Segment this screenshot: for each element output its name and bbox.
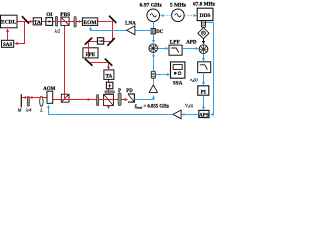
wire: blue APS left to amplifier bbox=[182, 114, 199, 116]
half-wave plate lambda/2 (top row) bbox=[54, 16, 61, 33]
SAS saturated absorption spectroscopy box bbox=[2, 40, 14, 48]
PBS2 combiner cube (bottom) bbox=[104, 94, 114, 105]
mirror M3 (turns beam down to FPE) bbox=[85, 38, 92, 45]
isolator2 box (left arrow) bbox=[97, 38, 103, 45]
wire: red beam TA2 to isolator3 to waveplate to PBS2 bbox=[108, 79, 110, 95]
beam splitter cube1 (bottom, under PBS1) bbox=[61, 94, 69, 102]
6.97 GHz oscillator bbox=[140, 2, 163, 21]
PBS1 polarizing beam splitter cube (top row) bbox=[61, 17, 69, 25]
wire: blue PD output to vertical riser bbox=[135, 96, 154, 99]
isolator3 box (down arrow) bbox=[106, 82, 113, 89]
wire: red diffracted beam AOM to PD bbox=[53, 99, 128, 101]
wire: red pickoff beam down to SAS row bbox=[15, 21, 24, 44]
svg-text:PI: PI bbox=[201, 89, 206, 95]
svg-text:PD: PD bbox=[126, 89, 133, 94]
svg-text:L: L bbox=[39, 107, 43, 112]
svg-text:TA: TA bbox=[34, 20, 41, 26]
wire: blue splitter2 down to doubler diamond bbox=[203, 26, 205, 29]
wire: dashed blue 5MHz to DDS bbox=[184, 15, 196, 17]
svg-text:OI: OI bbox=[46, 12, 52, 18]
wire: blue splitter1 up into mixer1 bbox=[153, 54, 155, 72]
LPF2 loop filter box bbox=[198, 62, 211, 73]
mixer1 bbox=[149, 44, 158, 53]
wire: blue splitter2 tap to right edge down to APS bbox=[205, 23, 213, 115]
LPF low-pass filter box bbox=[169, 40, 182, 56]
svg-text:SSA: SSA bbox=[173, 80, 183, 86]
red arrow into TA1 bbox=[30, 20, 33, 23]
wire: blue 6.97GHz osc down through DC block into mixer1 bbox=[153, 22, 155, 43]
svg-text:P: P bbox=[118, 89, 121, 94]
power splitter (PD chain) bbox=[151, 71, 155, 78]
red arrow after quarter-wave plate bbox=[31, 96, 34, 99]
optical isolator OI box bbox=[46, 12, 53, 25]
svg-text:67.8 MHz: 67.8 MHz bbox=[193, 2, 215, 8]
wire: red beam down from M1 bbox=[112, 21, 114, 42]
svg-text:λ/2: λ/2 bbox=[54, 28, 61, 33]
svg-text:TA: TA bbox=[105, 74, 112, 80]
wire: black doubler down into mixer2 bbox=[203, 39, 205, 44]
power splitter under DDS bbox=[201, 21, 205, 27]
polarizer P bbox=[118, 89, 121, 105]
mirror M1 (top right of EOM) bbox=[109, 16, 116, 23]
EOM electro-optic modulator box bbox=[82, 18, 97, 26]
red arrow into EOM bbox=[79, 20, 82, 23]
wire: blue mixer1 out to LPF bbox=[158, 48, 169, 50]
AOM acousto-optic modulator box bbox=[43, 87, 56, 103]
TA1 tapered amplifier box bbox=[33, 18, 41, 26]
svg-text:Vc(t): Vc(t) bbox=[185, 103, 194, 109]
wire: red beam PBS1 down through cube1 bbox=[64, 25, 66, 99]
LNA low-noise amplifier (points left) bbox=[125, 21, 136, 35]
wire: red dump beam below PBS2 bbox=[108, 106, 110, 109]
lens L bbox=[39, 96, 43, 112]
wire: blue LNA line from DC junction to EOM bbox=[91, 27, 154, 30]
wire: red beam M4 right to M5 bbox=[89, 62, 109, 64]
FPE Fabry-Perot etalon box bbox=[83, 48, 98, 58]
svg-text:DC: DC bbox=[156, 30, 164, 35]
APS analog phase shifter box bbox=[199, 110, 209, 118]
mixer2 APD bbox=[199, 45, 208, 54]
wire: blue amp to splitter1 bbox=[153, 78, 155, 85]
wire: blue amplifier to AOM bbox=[49, 106, 173, 115]
svg-text:SAS: SAS bbox=[3, 43, 12, 48]
amplifier (up) in PD chain bbox=[149, 85, 157, 93]
beam sampler plate bbox=[22, 16, 29, 23]
wire: red SAS feedback up into ECDL bbox=[7, 29, 9, 40]
wire: red beam M2 left to M3 bbox=[88, 41, 112, 43]
wire: dashed blue 5MHz to 6.97GHz osc bbox=[161, 15, 171, 17]
svg-text:LPF: LPF bbox=[170, 40, 181, 46]
ECDL laser box bbox=[1, 15, 18, 28]
SSA signal source analyzer instrument bbox=[171, 62, 185, 87]
wire: red top beam ECDL to mirror M1 bbox=[17, 21, 112, 23]
red arrow toward M (retro return) bbox=[23, 96, 26, 99]
PI controller box bbox=[198, 86, 209, 96]
waveplate (before EOM) bbox=[74, 17, 76, 27]
svg-text:APD: APD bbox=[186, 39, 197, 45]
quarter-wave plate lambda/4 bbox=[25, 97, 32, 113]
TA2 tapered amplifier box bbox=[104, 70, 114, 80]
svg-text:EOM: EOM bbox=[83, 20, 97, 26]
mirror M2 (turns beam left) bbox=[107, 38, 115, 46]
svg-text:6.97 GHz: 6.97 GHz bbox=[140, 2, 163, 8]
horizontal half-wave plate above PBS2 bbox=[105, 91, 114, 93]
svg-text:λ/4: λ/4 bbox=[25, 107, 32, 112]
wire: red beam down into TA2 with arrow bbox=[108, 63, 110, 70]
svg-text:AOM: AOM bbox=[43, 87, 56, 92]
red arrow mid-beam before PBS2 bbox=[88, 98, 91, 101]
wire: red beam down through FPE bbox=[88, 42, 90, 59]
svg-text:fbeat = 6.835 GHz: fbeat = 6.835 GHz bbox=[135, 105, 170, 110]
frequency doubler diamond bbox=[198, 28, 209, 39]
svg-text:LNA: LNA bbox=[125, 21, 136, 27]
svg-text:FPE: FPE bbox=[86, 53, 96, 58]
wire: blue PI down to APS bbox=[203, 95, 205, 109]
wire: blue splitter1 right to SSA bbox=[155, 74, 169, 76]
DDS direct digital synthesizer box bbox=[193, 2, 216, 21]
svg-text:5 MHz: 5 MHz bbox=[170, 2, 187, 8]
wire: blue LPF to mixer2 bbox=[182, 48, 198, 50]
PD photodetector symbol bbox=[126, 89, 134, 102]
svg-text:DDS: DDS bbox=[199, 13, 210, 19]
DC block component bbox=[151, 28, 164, 35]
svg-text:εd(t): εd(t) bbox=[190, 77, 198, 83]
half-wave plate before PBS2 (bottom row) bbox=[97, 95, 99, 106]
mirror M5 (turns beam down to TA2) bbox=[105, 59, 113, 66]
svg-text:ECDL: ECDL bbox=[1, 20, 17, 26]
mirror M4 (below FPE, turns beam right) bbox=[85, 59, 93, 66]
wire: blue mixer2 down to LPF2 bbox=[203, 54, 205, 61]
mirror M (retro mirror, bottom left) bbox=[17, 94, 23, 112]
wire: red bottom beam M mirror to AOM bbox=[22, 97, 47, 99]
svg-text:PBS: PBS bbox=[60, 12, 70, 18]
svg-text:APS: APS bbox=[199, 114, 209, 119]
amplifier (points left) on AOM drive line bbox=[173, 110, 181, 119]
wire: blue LPF2 down to PI bbox=[203, 73, 205, 85]
5 MHz oscillator bbox=[170, 2, 187, 21]
